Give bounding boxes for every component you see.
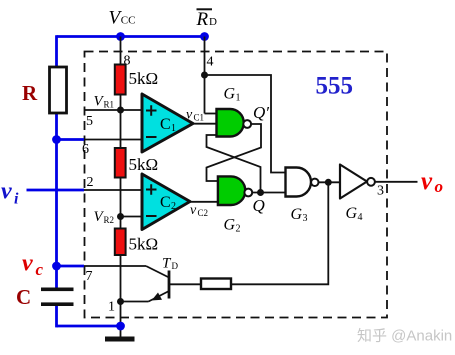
svg-text:G: G [346,205,358,222]
node VR1 dot [117,107,124,114]
wire: output pin3 to vo [375,181,418,183]
svg-text:4: 4 [358,212,363,223]
svg-text:555: 555 [316,73,354,100]
svg-text:C1: C1 [194,113,205,123]
svg-text:R: R [22,81,38,105]
svg-text:R2: R2 [104,215,115,225]
wire: vc / pin7 stub outside (blue) [57,265,85,268]
node: Rd junction dot [200,32,209,41]
wire: C2 output to G2 bottom input [190,201,218,203]
gate G4 (inverter) [340,165,367,199]
svg-text:2: 2 [87,175,94,190]
wire: pin4 Rd vertical into box [204,37,206,114]
wire: divider R2-R3 [120,178,122,229]
capacitor C plates [41,288,74,292]
wire: pin7 discharge to collector [84,265,146,267]
svg-text:v: v [22,251,33,277]
wire: Vcc top rail (blue) [57,35,205,38]
gate G1 (green NAND) [217,109,244,137]
node VR2 dot [117,213,124,220]
svg-text:R: R [196,9,209,30]
wire: pin6 to C1 minus input (black) [84,139,142,141]
wire: divider R3 down to ground [120,255,122,337]
node: ground junction dot (blue) [116,322,125,331]
svg-text:6: 6 [82,142,89,157]
svg-text:R1: R1 [104,100,115,110]
svg-text:D: D [172,261,179,271]
wire: Q output to G3 [252,192,285,194]
wire: G1 third input from Q feedback [207,135,261,193]
svg-text:4: 4 [207,55,214,70]
resistor base (white) [201,279,231,290]
svg-text:2: 2 [171,201,176,212]
resistor R (outer, white) [50,67,67,113]
resistor R1 5k (top red) [115,65,126,95]
wire: pin6 threshold stub outside (blue) [57,138,85,141]
wire: feedback from G3/G4 node down to base resistor [231,182,328,284]
svg-text:3: 3 [377,184,384,199]
wire: VR2 node to C2 minus input [121,216,142,218]
node: vc junction dot [52,262,61,271]
svg-text:C: C [16,285,31,309]
wire: Q' feedback to G2 top input [207,124,262,181]
gate G2 (green NAND) [218,176,245,205]
svg-text:1: 1 [236,93,241,104]
svg-text:v: v [421,168,433,195]
wire: C1 output to G1 [193,123,217,125]
svg-text:5kΩ: 5kΩ [129,155,159,174]
wire: G3 output to G4 [319,181,341,183]
wire: emitter to pin1 node [121,301,149,303]
svg-text:知乎 @Anakin: 知乎 @Anakin [357,328,452,345]
wire: pin2 to C2 plus input (black) [84,189,142,191]
svg-text:C: C [160,116,171,133]
node: Q junction dot [257,189,264,196]
svg-text:2: 2 [236,224,241,235]
svg-text:3: 3 [303,213,308,224]
svg-text:G: G [291,206,303,223]
wire: vi input (blue) [27,189,85,192]
wire: left vertical below capacitor (blue) [55,306,58,328]
dashed 555 package border [85,52,388,318]
gate G3 (white NAND) [286,168,312,197]
wire: base resistor to transistor base [169,283,201,285]
svg-text:5: 5 [86,114,93,129]
node: Vcc junction dot [116,32,125,41]
node: G3/G4 junction dot [325,179,332,186]
wire: left outer vertical (blue) [55,35,58,288]
svg-text:5kΩ: 5kΩ [129,235,159,254]
comparator C1 [142,94,193,152]
svg-text:CC: CC [121,15,136,27]
node: pin4 branch dot [201,72,208,79]
transistor TD [168,271,171,299]
wire: divider R1-R2 [120,95,122,149]
node: threshold junction dot [52,135,61,144]
wire: Rd branch to G3 (top run) [205,75,286,173]
svg-text:G: G [224,86,236,103]
svg-text:i: i [14,191,19,208]
svg-text:D: D [209,16,217,28]
svg-text:v: v [186,108,193,123]
resistor R3 5k (bottom red) [115,229,126,256]
svg-text:v: v [1,179,12,205]
comparator C2 [142,174,190,230]
svg-text:v: v [190,203,197,218]
wire: Rd bend into G1 top input [205,113,217,115]
svg-text:G: G [224,217,236,234]
wire: bottom ground rail (blue) [57,325,121,328]
svg-text:1: 1 [171,123,176,134]
svg-text:C2: C2 [198,208,209,218]
svg-text:c: c [36,260,44,279]
wire: pin5 / VR1 node to C1 plus input [84,109,142,111]
resistor R2 5k (middle red) [115,148,126,178]
node: pin1 dot [117,298,124,305]
wire: pin8 from Vcc rail into box [120,37,122,66]
svg-text:C: C [160,194,171,211]
svg-text:Q′: Q′ [253,103,269,122]
label Rd (with overline) [197,8,213,10]
svg-text:o: o [435,177,444,196]
svg-text:Q: Q [253,196,265,215]
svg-text:7: 7 [86,269,93,284]
svg-text:5kΩ: 5kΩ [129,69,159,88]
ground symbol [105,337,135,342]
svg-text:1: 1 [108,300,115,315]
